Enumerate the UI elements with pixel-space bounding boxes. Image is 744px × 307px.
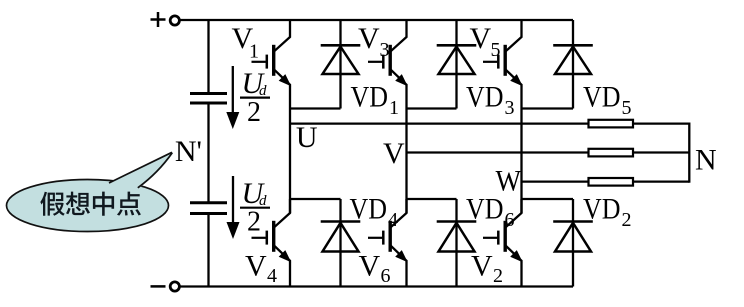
svg-text:3: 3 [380,39,390,61]
resistor load phase W [589,178,634,186]
svg-text:V: V [358,22,380,55]
positive input terminal circle [170,16,179,25]
label VD3 [466,81,515,120]
wire: DC-link capacitor leg upper [207,20,209,92]
svg-text:6: 6 [505,209,515,231]
wire: lower junction phase V (transistor-diode tie) [407,198,457,200]
假想中点 char 中 [93,192,114,216]
svg-text:V: V [245,250,267,283]
svg-text:N': N' [175,135,202,168]
wire: lower junction phase W (transistor-diode tie) [522,198,574,200]
svg-text:2: 2 [622,209,632,231]
wire: top DC rail [180,19,573,21]
svg-text:V: V [383,137,405,170]
svg-text:2: 2 [493,265,503,287]
wire: bottom DC rail [180,285,573,287]
wire: phase W column (V5 emitter to V2 collector) [520,109,522,214]
plus terminal sign [151,12,166,27]
callout bubble tail pointing to N' [104,152,173,192]
svg-text:VD: VD [350,192,388,225]
svg-text:V: V [471,250,493,283]
svg-text:W: W [496,165,522,198]
svg-text:1: 1 [389,97,399,119]
label V6 [359,250,391,288]
svg-text:U: U [296,121,318,154]
minus terminal sign [151,285,166,288]
label V1 [232,22,260,63]
diode VD1 (upper freewheeling) [321,20,361,109]
resistor load phase U [589,120,634,128]
假想中点 char 想 [66,192,90,216]
svg-text:VD: VD [583,81,621,114]
svg-text:V: V [359,250,381,283]
wire: between capacitors (midpoint N') [207,104,209,201]
wire: phase U column (V1 emitter to V4 collector) [289,109,291,214]
svg-text:6: 6 [381,265,391,287]
diode VD6 (lower freewheeling) [437,199,477,287]
label V5 [470,22,501,61]
label Ud/2 (lower) [240,177,270,238]
label VD4 [350,192,399,231]
svg-text:5: 5 [622,97,632,119]
transistor V3 (IGBT/GTR, upper) [368,20,408,109]
label VD1 [351,81,400,120]
svg-text:VD: VD [583,192,621,225]
svg-text:2: 2 [247,207,261,238]
callout text 假想中点 [40,192,141,216]
wire: phase V column (V3 emitter to V6 collector) [405,109,407,214]
wire: upper junction phase U (transistor-diode tie) [290,107,341,109]
svg-text:4: 4 [388,209,398,231]
wire: phase W output line [522,180,589,182]
diode VD2 (lower freewheeling) [553,199,593,287]
label VD6 [466,192,515,231]
voltage arrow Ud/2 (upper) [226,66,239,129]
resistor load phase V [589,149,634,157]
svg-text:5: 5 [491,39,501,61]
wire: upper junction phase W (transistor-diode tie) [522,107,574,109]
voltage arrow Ud/2 (lower) [227,176,240,239]
wire: neutral bus vertical (node N) [688,123,690,183]
negative input terminal circle [170,282,179,291]
transistor V2 (IGBT/GTR, lower) [483,199,523,287]
svg-text:VD: VD [351,81,389,114]
svg-text:2: 2 [247,97,261,128]
wire: upper junction phase V (transistor-diode tie) [407,107,457,109]
svg-text:1: 1 [249,41,259,63]
capacitor C1 (upper half of DC link) [190,94,227,104]
wire: phase U output line [290,122,589,124]
wire: capacitor leg lower [207,215,209,287]
transistor V6 (IGBT/GTR, lower) [368,199,408,287]
diode VD4 (lower freewheeling) [321,199,361,287]
svg-text:V: V [470,22,492,55]
diode VD5 (upper freewheeling) [553,20,593,109]
label V2 [471,250,503,288]
label VD2 [583,192,632,231]
label Ud/2 (upper) [240,67,270,128]
callout bubble ellipse (假想中点) [7,180,169,232]
wire: resistor U to neutral bus [633,122,689,124]
label VD5 [583,81,632,120]
diode VD3 (upper freewheeling) [437,20,477,109]
svg-text:4: 4 [267,265,277,287]
svg-text:3: 3 [505,97,515,119]
svg-text:N: N [695,144,717,177]
假想中点 char 点 [117,192,141,216]
wire: lower junction phase U (transistor-diode tie) [290,198,341,200]
假想中点 char 假 [40,192,65,216]
wire: phase V output line [407,151,589,153]
wire: resistor W to neutral bus [633,180,689,182]
transistor V5 (IGBT/GTR, upper) [483,20,523,109]
wire: resistor V to neutral bus [633,151,689,153]
transistor V1 (IGBT/GTR, upper) [252,20,292,109]
label V3 [358,22,390,61]
label V4 [245,250,277,288]
svg-text:VD: VD [466,81,504,114]
capacitor C2 (lower half of DC link) [190,203,227,214]
transistor V4 (IGBT/GTR, lower) [252,199,292,287]
